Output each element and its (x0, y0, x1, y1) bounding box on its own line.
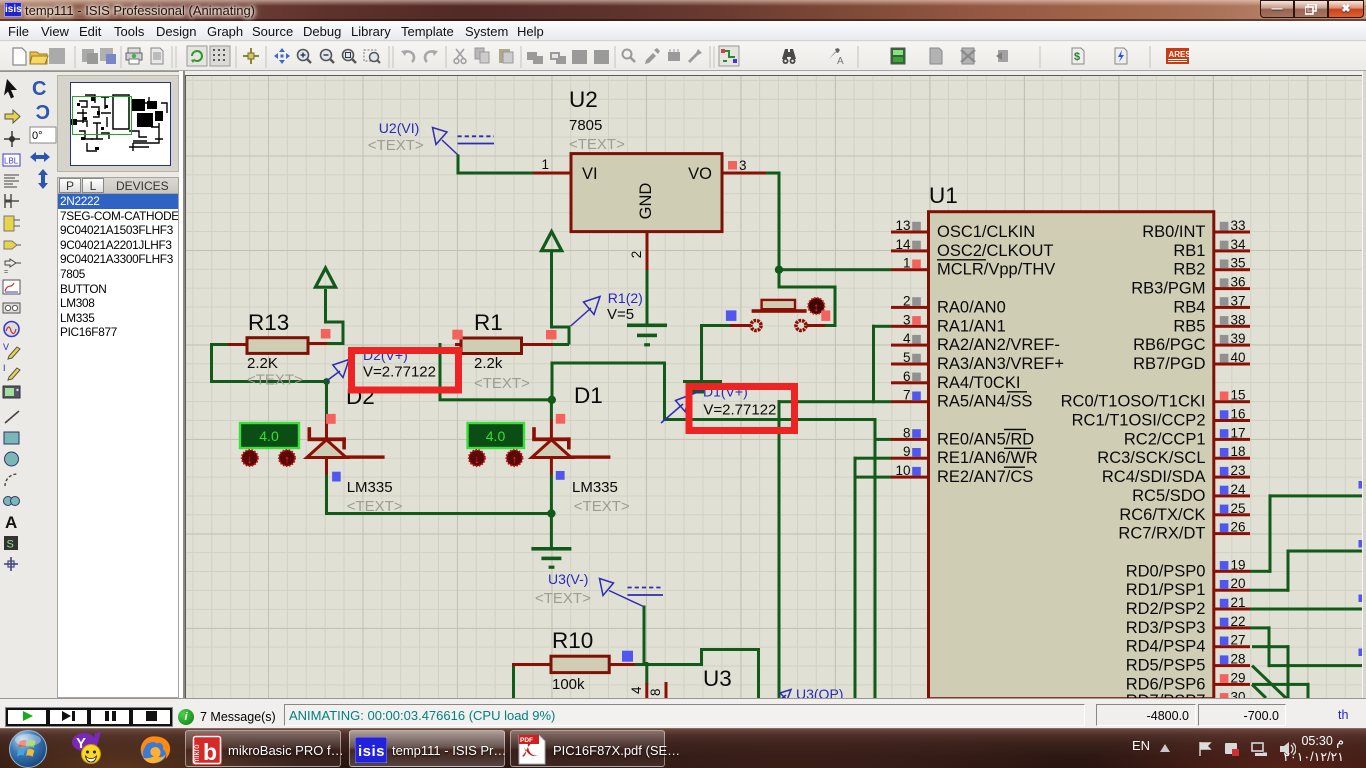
svg-text:V=2.77122: V=2.77122 (703, 402, 776, 419)
svg-text:RC6/TX/CK: RC6/TX/CK (1119, 506, 1205, 524)
block rotate (572, 50, 587, 64)
U1 right state squares (1220, 222, 1229, 702)
voltage probe (3, 342, 20, 359)
svg-text:9: 9 (903, 444, 911, 459)
svg-text:RC4/SDI/SDA: RC4/SDI/SDA (1102, 468, 1206, 486)
svg-text:RD2/PSP2: RD2/PSP2 (1126, 600, 1206, 618)
wire long vertical x875 (874, 418, 877, 698)
zoom in (298, 50, 312, 64)
svg-text:PDF: PDF (520, 737, 533, 744)
svg-text:U3(V-): U3(V-) (548, 571, 588, 587)
svg-text:RB0/INT: RB0/INT (1142, 223, 1205, 241)
wire PIC pin10 (854, 476, 892, 479)
svg-text:16: 16 (1231, 407, 1246, 422)
push button SW (730, 300, 826, 331)
electrical check (1115, 48, 1127, 64)
svg-text:ARES: ARES (1169, 50, 1192, 59)
packaging (668, 49, 680, 61)
svg-text:RB1: RB1 (1173, 242, 1205, 260)
ground (7805) (627, 324, 667, 347)
subcircuit (4, 216, 20, 231)
button D2 up (279, 450, 295, 466)
svg-text:<TEXT>: <TEXT> (569, 136, 625, 153)
terminal (4, 241, 21, 249)
2d line (5, 411, 19, 423)
minimap (57, 75, 179, 172)
svg-text:OSC2/CLKOUT: OSC2/CLKOUT (937, 242, 1053, 260)
wire button left to RA1 net (700, 324, 731, 327)
left panel (0, 71, 179, 698)
svg-text:=: = (4, 269, 8, 276)
svg-text:38: 38 (1231, 312, 1246, 327)
wire PIC pin29 (1252, 683, 1310, 686)
svg-text:29: 29 (1231, 670, 1246, 685)
square D1 top (556, 414, 565, 424)
svg-text:19: 19 (1231, 557, 1246, 572)
square D2 top (326, 414, 336, 424)
wire R1 right to +5V arrow (551, 343, 570, 346)
ground (sensors) (531, 547, 571, 569)
svg-text:RA4/T0CKI: RA4/T0CKI (937, 374, 1020, 392)
refresh (187, 46, 207, 66)
button D1 up (506, 450, 522, 466)
svg-text:24: 24 (1231, 482, 1247, 497)
zoom all (343, 50, 357, 64)
micro U1 PIC16F877 (929, 212, 1214, 699)
wire PIC pin22 (1250, 626, 1271, 629)
U1 right pin stubs (1214, 231, 1250, 686)
bus (5, 194, 19, 208)
svg-text:A: A (837, 56, 844, 67)
svg-text:<TEXT>: <TEXT> (247, 372, 303, 389)
svg-text:36: 36 (1231, 275, 1246, 290)
svg-text:LM335: LM335 (572, 479, 618, 496)
svg-text:I: I (3, 363, 6, 373)
wire PIC pin27 (1252, 645, 1290, 648)
square button right (821, 310, 830, 321)
svg-text:21: 21 (1231, 595, 1246, 610)
wire y419 crossing (663, 418, 877, 421)
devices header (57, 177, 179, 194)
toolbar (0, 42, 1366, 71)
probe U2(VI) (368, 120, 494, 155)
power arrow +5V (R13) (315, 268, 335, 287)
svg-text:A: A (5, 513, 17, 532)
wire 7805 GND pin (646, 232, 649, 270)
svg-text:V=2.77122: V=2.77122 (363, 364, 436, 381)
svg-text:1: 1 (903, 256, 911, 271)
svg-text:RC5/SDO: RC5/SDO (1132, 487, 1206, 505)
graph (3, 280, 20, 294)
highlight box D1 (689, 387, 795, 431)
svg-text:8: 8 (648, 688, 663, 696)
pick (623, 50, 636, 63)
svg-text:R1(2): R1(2) (608, 290, 643, 306)
wire U2(VI) probe to 7805 VI (457, 155, 460, 175)
wire R13 right to +5V arrow (326, 342, 345, 345)
rotate controls column (30, 78, 56, 189)
device pin (4, 259, 21, 276)
svg-text:RC2/CCP1: RC2/CCP1 (1124, 430, 1206, 448)
right edge probe squares (1359, 481, 1366, 656)
svg-text:RC3/SCK/SCL: RC3/SCK/SCL (1097, 449, 1205, 467)
wire rail to MCLR pin1 (778, 268, 892, 271)
origin (243, 48, 259, 64)
svg-text:39: 39 (1231, 331, 1246, 346)
svg-text:3: 3 (903, 312, 911, 327)
resistor R10 (512, 663, 552, 666)
svg-text:<TEXT>: <TEXT> (535, 590, 591, 607)
tape (3, 303, 20, 313)
svg-text:RA3/AN3/VREF+: RA3/AN3/VREF+ (937, 355, 1064, 373)
svg-text:RA5/AN4/SS: RA5/AN4/SS (937, 393, 1032, 411)
svg-text:↑: ↑ (284, 454, 290, 466)
U1 left pin numbers (895, 218, 911, 478)
wire autorouter (719, 46, 739, 66)
sensor D2 LM335 (307, 384, 403, 515)
square D2 bottom (332, 472, 341, 482)
print (126, 48, 142, 64)
wire long vertical x855 (854, 457, 857, 698)
svg-text:7805: 7805 (569, 117, 602, 134)
junction dot (4, 131, 20, 147)
pan (274, 48, 290, 64)
svg-text:V=5: V=5 (607, 306, 634, 323)
U1 left pin names (937, 223, 1064, 486)
svg-text:2.2K: 2.2K (247, 355, 278, 372)
svg-text:34: 34 (1231, 237, 1247, 252)
block delete (594, 50, 609, 64)
svg-text:b: b (203, 739, 217, 765)
svg-text:14: 14 (895, 237, 911, 252)
svg-text:RE1/AN6/WR: RE1/AN6/WR (937, 449, 1038, 467)
square R13 right (321, 329, 331, 339)
decompose (688, 49, 702, 63)
svg-text:37: 37 (1231, 293, 1246, 308)
svg-text:RB3/PGM: RB3/PGM (1131, 280, 1205, 298)
svg-text:mikro: mikro (192, 744, 201, 764)
search tag (782, 49, 796, 64)
svg-text:<TEXT>: <TEXT> (368, 137, 424, 154)
import (82, 49, 98, 64)
paste (499, 49, 513, 63)
zoom area (364, 50, 380, 63)
svg-text:RD3/PSP3: RD3/PSP3 (1126, 619, 1206, 637)
export (100, 48, 116, 64)
resistor R13 (228, 343, 248, 346)
redo (425, 50, 438, 62)
wire rail down to button (778, 270, 781, 289)
wire diagonal pin30 area (1252, 684, 1266, 698)
bom (1072, 48, 1084, 64)
wire PIC pin9 (854, 457, 892, 460)
svg-text:7: 7 (903, 388, 911, 403)
svg-text:U2: U2 (569, 87, 598, 112)
wire D1 cathode riser (663, 362, 666, 420)
square 7805 pin3 (728, 161, 737, 170)
wire D1 pin upper (550, 398, 553, 420)
power arrow +5V (R1) (542, 232, 562, 251)
svg-text:RB5: RB5 (1173, 317, 1205, 335)
svg-text:↑: ↑ (512, 454, 518, 466)
svg-text:22: 22 (1231, 614, 1246, 629)
svg-text:U1: U1 (929, 183, 958, 208)
regulator U2 7805 (571, 154, 722, 232)
instrument (3, 386, 20, 398)
svg-text:VO: VO (688, 165, 712, 183)
design explorer (891, 48, 905, 64)
button D1 down (469, 450, 485, 466)
wire D2 pin lower (325, 475, 328, 514)
wire PIC pin28 (1268, 664, 1366, 667)
remove sheet (961, 48, 975, 64)
svg-text:2.2k: 2.2k (474, 355, 503, 372)
cut (454, 49, 466, 63)
svg-text:↓: ↓ (474, 454, 480, 466)
svg-text:0°: 0° (32, 130, 43, 142)
2d circle (5, 452, 19, 466)
svg-text:13: 13 (895, 218, 910, 233)
print doc (151, 48, 163, 64)
svg-text:RB4: RB4 (1173, 298, 1205, 316)
status bar (0, 698, 1366, 728)
svg-text:RB6/PGC: RB6/PGC (1133, 336, 1206, 354)
2d arc (5, 474, 17, 486)
wire PIC RA5 pin7 (778, 400, 892, 403)
svg-text:LM335: LM335 (347, 479, 393, 496)
square button left (726, 310, 737, 321)
svg-text:4.0: 4.0 (486, 428, 506, 444)
menu bar (0, 21, 1366, 41)
wire PIC pin20 (1250, 589, 1290, 592)
svg-text:<TEXT>: <TEXT> (474, 375, 530, 392)
svg-text:VI: VI (582, 165, 598, 183)
selection arrow (4, 79, 17, 99)
svg-text:$: $ (1074, 51, 1080, 63)
undo (401, 50, 414, 62)
2d marker (4, 557, 18, 571)
node junction D1 top (548, 396, 556, 404)
U1 right pin numbers (1231, 218, 1247, 704)
svg-text:15: 15 (1231, 388, 1246, 403)
open folder (30, 52, 48, 64)
svg-text:R1: R1 (474, 310, 503, 335)
display D1 value 4.0 (468, 423, 525, 448)
probe D2(V+) (327, 360, 350, 382)
text script (4, 175, 19, 187)
wire PIC pin8 (874, 438, 892, 441)
ares netlist (1166, 48, 1191, 64)
taskbar (0, 728, 1366, 768)
svg-text:8: 8 (903, 425, 911, 440)
wire VO to +5V rail (766, 172, 781, 175)
property tool (829, 48, 844, 67)
svg-text:OSC1/CLKIN: OSC1/CLKIN (937, 223, 1035, 241)
highlight box D2 (352, 351, 459, 391)
opamp U3 pin stubs (645, 662, 648, 684)
svg-text:<TEXT>: <TEXT> (347, 498, 403, 515)
U1 right pin names (1061, 223, 1206, 710)
square R1 left (452, 330, 462, 340)
svg-text:18: 18 (1231, 444, 1246, 459)
sensor D1 LM335 (532, 383, 630, 515)
svg-text:17: 17 (1231, 425, 1246, 440)
probe D1(V+) (661, 390, 704, 424)
svg-text:6: 6 (903, 369, 911, 384)
title bar (0, 0, 1366, 21)
wire D2 pin upper (325, 380, 328, 420)
wire U3(V-) probe (643, 606, 646, 666)
svg-text:RD5/PSP5: RD5/PSP5 (1126, 657, 1206, 675)
square D1 bottom (556, 471, 565, 480)
svg-text:RD4/PSP4: RD4/PSP4 (1126, 638, 1206, 656)
U1 left state squares (912, 222, 921, 476)
wire R10 right to U3 (635, 663, 703, 666)
probe U3(V-) (535, 571, 663, 607)
component mode (5, 110, 20, 123)
probe U3(OP) (780, 686, 843, 702)
wire label (3, 154, 20, 166)
new sheet (disabled) (930, 48, 942, 64)
svg-text:C: C (32, 78, 46, 100)
square R1 right (546, 330, 557, 339)
svg-text:35: 35 (1231, 256, 1246, 271)
node junction VO rail (775, 266, 783, 274)
current probe (3, 363, 20, 380)
svg-text:40: 40 (1231, 350, 1246, 365)
display D2 value 4.0 (240, 423, 299, 448)
svg-text:↕: ↕ (813, 300, 819, 314)
svg-text:RB7/PGD: RB7/PGD (1133, 355, 1206, 373)
wire R10 left down (512, 663, 515, 698)
save (disabled) (49, 48, 65, 64)
svg-text:1: 1 (541, 157, 549, 172)
svg-text:RD0/PSP0: RD0/PSP0 (1126, 562, 1206, 580)
svg-text:20: 20 (1231, 576, 1246, 591)
svg-text:LBL: LBL (4, 157, 19, 166)
svg-text:GND: GND (637, 183, 655, 220)
generator (4, 322, 19, 337)
svg-text:26: 26 (1231, 520, 1246, 535)
svg-text:RE2/AN7/CS: RE2/AN7/CS (937, 468, 1033, 486)
svg-text:4: 4 (903, 331, 911, 346)
svg-text:5: 5 (903, 350, 911, 365)
wire PIC RA1 pin3 (872, 325, 875, 403)
svg-text:U2(VI): U2(VI) (379, 120, 419, 136)
block copy (527, 52, 543, 64)
svg-text:C: C (36, 102, 50, 124)
svg-text:2: 2 (629, 251, 644, 259)
button state indicator (808, 298, 824, 314)
copy (475, 48, 489, 63)
wire diagonal pin28 area (1252, 666, 1288, 700)
wire long vertical x779 (778, 400, 781, 698)
svg-text:RD6/PSP6: RD6/PSP6 (1126, 675, 1206, 693)
svg-text:R10: R10 (552, 628, 593, 653)
7805 pin 3 stub (722, 172, 766, 175)
wire D1 pin lower (550, 475, 553, 514)
square R10 right (622, 651, 633, 662)
svg-text:25: 25 (1231, 501, 1246, 516)
svg-text:RD1/PSP1: RD1/PSP1 (1126, 581, 1206, 599)
svg-text:RE0/AN5/RD: RE0/AN5/RD (937, 430, 1034, 448)
2d symbol (4, 536, 18, 551)
svg-text:RB2: RB2 (1173, 261, 1205, 279)
svg-text:RC7/RX/DT: RC7/RX/DT (1118, 525, 1205, 543)
svg-text:33: 33 (1231, 218, 1246, 233)
svg-text:MCLR/Vpp/THV: MCLR/Vpp/THV (937, 261, 1055, 279)
svg-text:isis: isis (358, 743, 385, 760)
svg-text:2: 2 (903, 293, 911, 308)
make device (645, 48, 660, 64)
zoom out (321, 50, 335, 64)
wire PIC pin21 (1250, 608, 1366, 611)
svg-text:100k: 100k (552, 676, 585, 693)
node junction gnd (547, 509, 555, 517)
svg-text:RC0/T1OSO/T1CKI: RC0/T1OSO/T1CKI (1061, 393, 1206, 411)
svg-text:3: 3 (739, 158, 747, 173)
svg-text:↓: ↓ (247, 454, 253, 466)
7805 pin 1 stub (533, 172, 571, 175)
wire D2-D1 bottom bus (325, 512, 551, 515)
svg-text:S: S (7, 539, 14, 551)
new doc (13, 48, 26, 65)
node junction D2 top (323, 378, 330, 385)
wire R1 left loop (439, 398, 553, 401)
probe R1(2) (571, 290, 643, 326)
svg-text:<TEXT>: <TEXT> (574, 498, 630, 515)
goto sheet (996, 50, 1008, 62)
wire to ground (550, 512, 553, 548)
svg-text:D1: D1 (574, 383, 603, 408)
block move (550, 52, 566, 64)
wire PIC pin19 (1250, 570, 1272, 573)
svg-text:U3: U3 (703, 666, 732, 691)
svg-text:10: 10 (895, 463, 910, 478)
2d box (4, 432, 19, 444)
svg-text:RA0/AN0: RA0/AN0 (937, 298, 1006, 316)
button D2 down (242, 450, 258, 466)
2d path (4, 497, 20, 506)
svg-text:RC1/T1OSI/CCP2: RC1/T1OSI/CCP2 (1072, 412, 1206, 430)
svg-text:4: 4 (629, 686, 644, 694)
schematic canvas background grid (185, 75, 1362, 699)
wire R13 left loop (210, 343, 213, 383)
U1 left pin stubs (891, 231, 929, 479)
resistor R1 (455, 343, 462, 346)
svg-text:RA2/AN2/VREF-: RA2/AN2/VREF- (937, 336, 1060, 354)
svg-text:RA1/AN1: RA1/AN1 (937, 317, 1006, 335)
grid toggle (210, 46, 230, 66)
svg-text:23: 23 (1231, 463, 1246, 478)
svg-text:27: 27 (1231, 633, 1246, 648)
svg-text:R13: R13 (248, 310, 289, 335)
svg-text:28: 28 (1231, 652, 1246, 667)
svg-text:V: V (3, 342, 9, 352)
svg-text:4.0: 4.0 (259, 428, 279, 444)
